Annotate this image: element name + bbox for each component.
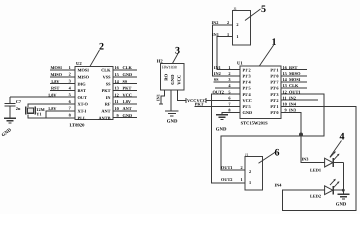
svg-text:MISO: MISO	[78, 75, 90, 80]
wire U1 pin3 SS stub	[214, 81, 241, 83]
svg-text:2u: 2u	[16, 106, 21, 111]
svg-text:IN4: IN4	[289, 102, 297, 107]
svg-text:OUT2: OUT2	[221, 177, 232, 182]
svg-text:VCC: VCC	[243, 98, 252, 103]
connector J2 (header, component 6) body	[245, 153, 263, 190]
svg-text:SS: SS	[106, 81, 111, 86]
svg-text:Y1: Y1	[36, 111, 41, 116]
svg-text:P3'1: P3'1	[270, 104, 278, 109]
svg-text:PKT: PKT	[195, 102, 204, 107]
svg-text:GND: GND	[243, 110, 253, 115]
svg-text:15: 15	[115, 72, 119, 77]
svg-text:LED1: LED1	[310, 167, 321, 172]
wire U2 pin15 GND stub	[113, 76, 137, 78]
svg-text:MOSI: MOSI	[289, 77, 301, 82]
wire U2 pin6 XT-O	[28, 104, 75, 107]
H2 pin name RO	[163, 73, 168, 80]
svg-text:9: 9	[285, 108, 287, 113]
svg-text:IN1: IN1	[156, 94, 161, 101]
svg-text:CLK: CLK	[101, 68, 111, 73]
wire U2 pin1 MOSI stub	[50, 69, 75, 71]
wire U1 pin16 RST stub	[281, 69, 307, 71]
svg-text:4: 4	[340, 132, 345, 143]
wire U1 pin7 PKT stub	[195, 105, 241, 107]
ground at U1 pin8	[216, 115, 228, 133]
H2 pin name VCC	[177, 75, 182, 85]
svg-text:IN1: IN1	[214, 65, 221, 70]
wire U1 pin14 MOSI stub	[281, 81, 307, 83]
net label SS	[115, 79, 128, 84]
wire U1 pin4 stub	[215, 87, 240, 89]
net label IN1 at J1	[212, 32, 229, 37]
svg-text:11: 11	[115, 99, 119, 104]
ground under C7	[1, 118, 16, 138]
svg-text:12: 12	[283, 89, 287, 94]
svg-text:1: 1	[69, 65, 71, 70]
svg-text:RST: RST	[289, 65, 297, 70]
svg-text:P1'1: P1'1	[270, 67, 278, 72]
svg-text:OUT: OUT	[78, 95, 87, 100]
wire U1 pin10 IN4 to LED2 (wrap route)	[281, 106, 356, 210]
power port VCC (U1 side)	[197, 98, 207, 103]
svg-text:IN3: IN3	[289, 108, 296, 113]
net label OUT2 at J2 pin1	[221, 177, 243, 182]
svg-text:13: 13	[283, 83, 287, 88]
svg-text:PKT: PKT	[123, 86, 132, 91]
svg-text:6: 6	[275, 148, 280, 159]
svg-text:ANT: ANT	[101, 109, 110, 114]
wire U2 pin7 XT-I	[46, 111, 75, 118]
net label IN3 at U1 pin9	[285, 108, 296, 113]
wire U1 pin9 IN3 to LED1	[281, 112, 324, 162]
svg-text:VCC: VCC	[177, 75, 182, 85]
svg-text:MOSI: MOSI	[51, 65, 63, 70]
svg-text:3: 3	[69, 79, 71, 84]
svg-text:1.8V: 1.8V	[48, 106, 57, 111]
svg-text:RF: RF	[105, 102, 111, 107]
wire to ground	[342, 190, 344, 194]
net label RST	[283, 65, 298, 70]
net label IN2	[283, 95, 296, 100]
U2 left pin names	[78, 68, 90, 121]
H2 pin name GND	[170, 74, 175, 85]
wire U2 pin11 1.8V stub	[113, 103, 137, 105]
svg-text:MOSI: MOSI	[78, 68, 90, 73]
svg-text:1: 1	[236, 34, 238, 39]
svg-text:H2: H2	[157, 59, 164, 64]
svg-text:GND: GND	[123, 72, 133, 77]
wire U2 pin13 PKT stub	[113, 89, 137, 91]
net label IN2 at J1	[212, 20, 230, 25]
svg-text:IN2: IN2	[214, 71, 221, 76]
svg-text:9: 9	[117, 113, 119, 118]
wire U2 pin4 RST stub	[50, 89, 75, 91]
svg-text:U2: U2	[76, 61, 82, 66]
connector J1 (header, component 5) body	[233, 7, 251, 45]
wire U1 pin13 CLK stub	[281, 87, 307, 89]
callout 3	[173, 46, 181, 64]
wire U2 pin2 MISO stub	[50, 76, 75, 78]
svg-text:U1: U1	[237, 61, 243, 66]
U2 left pin numbers 1-8	[69, 65, 72, 118]
svg-text:P3'6: P3'6	[270, 86, 279, 91]
wire U2 pin14 SS stub	[113, 83, 137, 85]
svg-text:PKT: PKT	[102, 88, 111, 93]
svg-text:P1'0: P1'0	[270, 74, 278, 79]
svg-text:MISO: MISO	[289, 71, 301, 76]
wire U2 pin5 OUT net 1.8V	[10, 96, 75, 98]
wire U2 pin16 CLK stub	[113, 69, 137, 71]
svg-text:1: 1	[227, 32, 229, 37]
wire U1 pin15 MISO stub	[281, 75, 307, 77]
wire H2 RO pin to IN1 stub	[161, 90, 165, 104]
svg-text:ANT: ANT	[123, 106, 132, 111]
svg-text:2: 2	[227, 20, 229, 25]
LED2	[325, 179, 344, 195]
callout 2	[90, 42, 104, 67]
svg-text:VCC: VCC	[123, 92, 132, 97]
wire LED1 cathode rail down to LED2	[342, 163, 344, 191]
svg-text:GND: GND	[170, 74, 175, 85]
IC U1 STC15W201S body	[237, 61, 281, 126]
wire H2 GND pin	[170, 90, 172, 111]
svg-text:P5'4: P5'4	[243, 92, 252, 97]
U2 right pin names	[99, 68, 112, 121]
U1 left pin names	[243, 67, 253, 115]
svg-text:2: 2	[69, 72, 71, 77]
wire U1 pin8 GND	[222, 112, 240, 114]
wire U2 pin10 ANT stub	[113, 110, 137, 112]
svg-text:P3'2: P3'2	[270, 98, 278, 103]
svg-text:12: 12	[115, 92, 119, 97]
svg-text:SS: SS	[214, 77, 219, 82]
svg-text:P3'7: P3'7	[270, 80, 279, 85]
svg-text:MISO: MISO	[51, 72, 63, 77]
wire J1 pin1 IN1 to U1 pin1	[217, 37, 240, 70]
svg-text:10: 10	[283, 102, 287, 107]
svg-text:DIG: DIG	[78, 81, 87, 86]
svg-text:GND: GND	[123, 113, 133, 118]
LED1	[325, 151, 344, 167]
U1 right pin names	[270, 67, 279, 115]
net label IN1 vertical	[156, 94, 161, 101]
svg-text:1: 1	[241, 177, 243, 182]
svg-text:GND: GND	[216, 127, 227, 133]
callout 4	[330, 132, 345, 158]
wire VCC port to U1 pin6	[206, 99, 240, 101]
net label PKT	[115, 86, 132, 91]
svg-text:IN4: IN4	[275, 183, 283, 188]
svg-text:XT-I: XT-I	[78, 109, 87, 114]
svg-text:VSS: VSS	[103, 75, 111, 80]
net label OUT1 at U1 pin12	[283, 89, 301, 94]
wire U1 pin5 OUT2 to J2 pin1	[212, 94, 246, 183]
svg-text:3: 3	[228, 77, 230, 82]
svg-text:IN2: IN2	[212, 20, 219, 25]
svg-text:1: 1	[228, 65, 230, 70]
svg-text:2: 2	[228, 71, 230, 76]
net label ANT	[115, 106, 132, 111]
IC U2 LT8920 body	[70, 61, 114, 128]
svg-text:P5'5: P5'5	[243, 104, 251, 109]
wire U2 pin12 VCC stub	[113, 96, 137, 98]
svg-text:XT-O: XT-O	[78, 102, 89, 107]
svg-text:1.8V: 1.8V	[123, 99, 132, 104]
wire U2 pin8 PLL	[28, 115, 75, 118]
svg-text:1.8V: 1.8V	[51, 79, 60, 84]
svg-text:P1'4: P1'4	[243, 80, 252, 85]
net label MISO	[283, 71, 302, 76]
ground at LED rail	[336, 194, 350, 207]
net label 1.8V	[115, 99, 132, 104]
svg-text:GND: GND	[167, 119, 178, 125]
capacitor C7	[5, 97, 16, 118]
svg-text:OUT1: OUT1	[221, 165, 232, 170]
wire U2 pin9 GND stub	[113, 117, 137, 119]
svg-text:P3'3: P3'3	[270, 92, 278, 97]
svg-text:11: 11	[283, 95, 287, 100]
power port VCC (H2 side)	[186, 98, 196, 103]
svg-text:2: 2	[249, 169, 251, 174]
svg-text:1: 1	[249, 180, 251, 185]
svg-text:15: 15	[283, 71, 287, 76]
svg-text:P3'0: P3'0	[270, 110, 278, 115]
svg-text:OUT1: OUT1	[289, 89, 300, 94]
net label GND	[117, 113, 133, 118]
svg-text:2: 2	[99, 42, 104, 53]
svg-text:13: 13	[115, 86, 119, 91]
svg-text:J1: J1	[245, 153, 248, 157]
svg-text:CLK: CLK	[123, 65, 133, 70]
svg-text:5: 5	[228, 89, 230, 94]
svg-text:2: 2	[241, 165, 243, 170]
svg-text:IN3: IN3	[302, 156, 309, 161]
wire U2 pin3 1.8V stub	[50, 83, 75, 85]
svg-text:CLK: CLK	[289, 83, 299, 88]
svg-text:GND: GND	[336, 202, 347, 208]
svg-text:5: 5	[261, 4, 266, 15]
svg-text:C7: C7	[16, 99, 22, 104]
svg-text:HW1838: HW1838	[162, 65, 177, 70]
svg-text:PLL: PLL	[78, 115, 86, 120]
crystal Y1	[26, 107, 35, 115]
svg-text:LED2: LED2	[310, 194, 321, 199]
svg-text:ANTB: ANTB	[99, 115, 111, 120]
svg-text:IN1: IN1	[212, 32, 219, 37]
junction dot at LED2 cathode	[342, 189, 345, 192]
svg-text:RST: RST	[78, 88, 86, 93]
svg-text:P1'5: P1'5	[243, 86, 251, 91]
net label GND	[115, 72, 133, 77]
svg-text:STC15W201S: STC15W201S	[241, 120, 269, 125]
svg-text:8: 8	[69, 113, 71, 118]
svg-text:OUT2: OUT2	[213, 89, 224, 94]
wire J1 pin2 IN2 to U1 pin2	[212, 25, 240, 76]
svg-text:IN2: IN2	[289, 95, 296, 100]
net label OUT1 at J2 pin2	[221, 165, 243, 170]
wire U1 pin12 OUT1 to J2 pin2	[221, 94, 324, 170]
svg-text:10: 10	[115, 106, 119, 111]
svg-text:2: 2	[236, 22, 238, 27]
wire H2 VCC pin to power port	[178, 90, 187, 100]
callout 1	[260, 37, 277, 66]
net label MOSI	[283, 77, 301, 82]
svg-text:LT8920: LT8920	[70, 122, 86, 127]
net label VCC	[115, 92, 132, 97]
IR receiver H2 HW1838 body	[157, 59, 184, 91]
svg-text:J1: J1	[233, 7, 236, 11]
svg-text:SS: SS	[123, 79, 128, 84]
callout 5	[245, 4, 266, 21]
svg-text:5: 5	[69, 92, 71, 97]
svg-text:P1'3: P1'3	[243, 74, 251, 79]
svg-text:1.8V: 1.8V	[48, 92, 57, 97]
U1 left pin numbers 1-8	[228, 65, 231, 113]
ground under H2	[165, 111, 179, 125]
svg-text:RST: RST	[51, 86, 59, 91]
svg-text:P1'2: P1'2	[243, 67, 251, 72]
svg-text:RO: RO	[163, 73, 168, 80]
svg-text:8: 8	[228, 108, 230, 113]
net label IN4 at U1 pin10	[283, 102, 297, 107]
wire U1 pin11 IN2 stub	[281, 99, 318, 101]
net label CLK	[283, 83, 299, 88]
net label CLK	[115, 65, 133, 70]
junction bump IN3 wire over OUT1 wire	[299, 133, 303, 137]
callout 6	[259, 148, 280, 164]
